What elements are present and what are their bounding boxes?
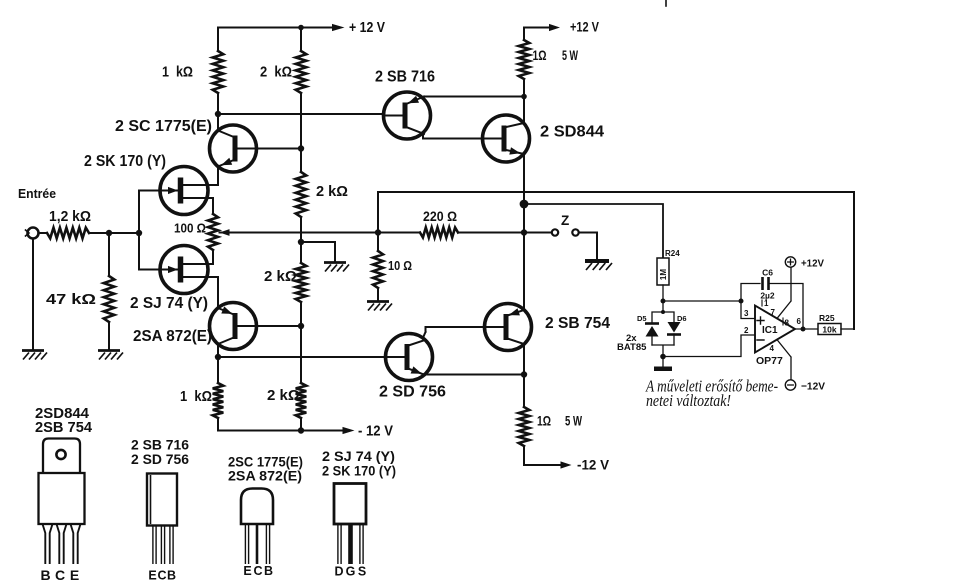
svg-text:R25: R25 bbox=[819, 313, 835, 323]
resistor R25 10k bbox=[818, 324, 841, 335]
svg-text:5 W: 5 W bbox=[562, 48, 578, 63]
svg-text:+12V: +12V bbox=[801, 258, 824, 270]
power -12V arrow right bbox=[561, 461, 572, 468]
diode D6 bbox=[668, 322, 681, 333]
wire 2SB716 emitter to column bbox=[424, 96, 524, 98]
node output to R24 (large) bbox=[520, 200, 529, 209]
wire node to op-amp + input column bbox=[663, 300, 741, 302]
capacitor C6 2u2 bbox=[741, 284, 760, 302]
wire 2SD756 emitter line bbox=[424, 374, 524, 376]
wire 2SC1775 base to column bbox=[256, 148, 301, 150]
svg-text:D5: D5 bbox=[637, 314, 647, 323]
svg-text:220 Ω: 220 Ω bbox=[423, 209, 457, 224]
wire top +12V rail left bbox=[218, 27, 332, 29]
resistor 47 kOhm bbox=[108, 233, 110, 276]
wire pin4 to -12V supply bbox=[777, 340, 791, 380]
wire 2SA872 base to column bbox=[256, 325, 301, 327]
svg-text:1,2 kΩ: 1,2 kΩ bbox=[49, 209, 91, 225]
resistor 2 kOhm first (top middle column) bbox=[300, 28, 302, 52]
svg-text:netei változtak!: netei változtak! bbox=[646, 391, 731, 410]
resistor 220 Ohm bbox=[420, 228, 458, 238]
node 2SD756 emitter junction bbox=[521, 371, 527, 377]
svg-text:2 SD 756: 2 SD 756 bbox=[131, 451, 189, 467]
transistor Q 2SB716 bbox=[384, 92, 431, 139]
wire 2SD756 base bbox=[218, 356, 386, 358]
wire bottom -12V rail left bbox=[218, 430, 346, 432]
wire node to R24 bbox=[524, 204, 663, 258]
svg-text:1Ω: 1Ω bbox=[533, 48, 547, 63]
resistor 2 kOhm third bbox=[296, 263, 307, 302]
resistor 1,2 kOhm input bbox=[47, 228, 89, 239]
svg-text:10k: 10k bbox=[822, 325, 836, 335]
node junction top rail / 2k column bbox=[298, 25, 304, 31]
node 2SB716 emitter junction bbox=[521, 94, 527, 100]
svg-text:+12 V: +12 V bbox=[570, 19, 600, 35]
svg-text:2SA 872(E): 2SA 872(E) bbox=[228, 469, 302, 484]
op-amp IC1 triangle bbox=[755, 306, 795, 353]
svg-text:2 SC 1775(E): 2 SC 1775(E) bbox=[115, 118, 212, 135]
svg-text:2 SB 754: 2 SB 754 bbox=[545, 315, 610, 332]
svg-text:2 kΩ: 2 kΩ bbox=[316, 184, 348, 200]
transistor Q 2SC1775 bbox=[210, 125, 257, 172]
wire switch to ground bbox=[579, 233, 597, 261]
svg-text:C6: C6 bbox=[762, 268, 773, 278]
wire input line bbox=[39, 232, 139, 234]
power +12V arrow right bbox=[549, 24, 560, 31]
wire node to 2SB716 base bbox=[218, 113, 385, 115]
wire pin7 to +12V supply bbox=[777, 267, 791, 318]
node emitter junction left column bbox=[215, 354, 221, 360]
power +12V arrow left bbox=[332, 24, 345, 31]
power -12V arrow left bbox=[343, 427, 355, 434]
ground under 47k bbox=[98, 349, 120, 352]
svg-text:8: 8 bbox=[785, 319, 790, 328]
svg-text:E: E bbox=[243, 564, 251, 578]
svg-text:D6: D6 bbox=[677, 314, 687, 323]
svg-text:BAT85: BAT85 bbox=[617, 342, 647, 353]
wire R25 to feedback column bbox=[841, 328, 854, 330]
resistor 1 kOhm upper bbox=[217, 28, 219, 52]
svg-text:2 SK 170 (Y): 2 SK 170 (Y) bbox=[84, 153, 166, 170]
node input / gate column junction bbox=[136, 230, 142, 236]
wire diode bracket top bbox=[652, 301, 674, 323]
svg-text:6: 6 bbox=[797, 317, 802, 326]
op-amp plus minus marks bbox=[757, 317, 764, 340]
wire jack to ground bbox=[32, 239, 34, 350]
transistor Q 2SA872 bbox=[210, 303, 257, 350]
transistor Q 2SD844 bbox=[483, 115, 530, 162]
wire 2SJ74 drain to 2SA872 emitter bbox=[184, 277, 218, 357]
wire op-amp + input bbox=[741, 301, 755, 319]
ground at switch bbox=[585, 259, 609, 263]
resistor 1 kOhm lower bbox=[217, 357, 219, 383]
supply +12V circle bbox=[785, 257, 795, 267]
svg-text:+ 12 V: + 12 V bbox=[349, 20, 385, 36]
svg-text:R24: R24 bbox=[665, 249, 680, 258]
connector input jack bbox=[28, 228, 39, 239]
wire 2SK170 source to 100R bbox=[184, 198, 213, 214]
svg-text:Z: Z bbox=[561, 213, 569, 228]
svg-text:C: C bbox=[157, 569, 166, 583]
ground middle stub bbox=[324, 261, 346, 264]
wire +12V right rail bbox=[524, 27, 551, 29]
node 2SA872 base junction bbox=[298, 323, 304, 329]
wire feedback from R25 bbox=[378, 192, 854, 329]
wire diode bracket bottom bbox=[652, 345, 674, 366]
trimmer wiper arrow and wire bbox=[220, 229, 230, 236]
svg-text:2 SD 756: 2 SD 756 bbox=[379, 384, 446, 401]
svg-text:2: 2 bbox=[744, 326, 749, 335]
wire 2SB716 collector to 2SD844 base bbox=[423, 134, 485, 139]
svg-text:1Ω: 1Ω bbox=[537, 414, 551, 429]
transistor Q 2SK170 JFET bbox=[160, 167, 208, 215]
ground under 10R bbox=[367, 300, 389, 303]
diode D5 bbox=[645, 322, 659, 325]
wire 2SD756 collector to 2SB754 base bbox=[422, 327, 486, 340]
svg-text:-12 V: -12 V bbox=[577, 457, 610, 473]
svg-text:2 SJ 74 (Y): 2 SJ 74 (Y) bbox=[322, 449, 395, 464]
wire gate column bbox=[138, 191, 140, 270]
resistor 2 kOhm fourth bbox=[296, 383, 307, 418]
wire ground stub bbox=[301, 242, 335, 262]
svg-text:2 kΩ: 2 kΩ bbox=[260, 65, 292, 81]
svg-text:−12V: −12V bbox=[801, 381, 825, 393]
svg-text:2 SJ 74 (Y): 2 SJ 74 (Y) bbox=[130, 295, 208, 312]
svg-text:2SB 754: 2SB 754 bbox=[35, 420, 92, 436]
wire to op-amp - input bbox=[663, 335, 755, 357]
wire 2SJ74 source to 100R bbox=[184, 250, 213, 264]
svg-text:B: B bbox=[167, 569, 176, 583]
svg-text:4: 4 bbox=[770, 344, 775, 353]
svg-text:G: G bbox=[346, 565, 356, 579]
transistor Q 2SD756 bbox=[386, 334, 433, 381]
svg-text:1M: 1M bbox=[659, 269, 668, 280]
wire output column bbox=[523, 79, 525, 407]
resistor 1 Ohm 5W lower bbox=[519, 407, 530, 446]
svg-text:3: 3 bbox=[744, 309, 749, 318]
node R24 bottom bbox=[661, 299, 666, 304]
svg-text:IC1: IC1 bbox=[762, 325, 778, 336]
resistor 10 Ohm bbox=[377, 233, 379, 252]
svg-text:100 Ω: 100 Ω bbox=[174, 221, 206, 236]
svg-text:1 kΩ: 1 kΩ bbox=[162, 65, 193, 81]
wire to switch bbox=[458, 232, 552, 234]
svg-text:5 W: 5 W bbox=[565, 414, 582, 429]
node input / 47k junction bbox=[106, 230, 112, 236]
wire 2SK170 drain to 2SC1775 emitter bbox=[184, 166, 218, 185]
svg-text:S: S bbox=[358, 565, 366, 579]
svg-text:B: B bbox=[264, 564, 273, 578]
wire top tick mark bbox=[665, 0, 667, 6]
supply -12V circle bbox=[785, 380, 795, 390]
node output column crossing bbox=[521, 229, 527, 235]
svg-text:B: B bbox=[40, 567, 50, 583]
node diode bottom bbox=[660, 354, 666, 360]
svg-text:Entrée: Entrée bbox=[18, 186, 56, 201]
wire 2SC1775 chord column bbox=[217, 114, 219, 185]
transistor Q 2SB754 bbox=[485, 304, 532, 351]
node bottom rail / 2k column bbox=[298, 427, 304, 433]
ground under input jack bbox=[22, 349, 44, 352]
resistor 1 Ohm 5W upper bbox=[523, 28, 525, 41]
svg-text:1 kΩ: 1 kΩ bbox=[180, 389, 212, 405]
svg-text:2 SK 170 (Y): 2 SK 170 (Y) bbox=[322, 464, 396, 479]
svg-text:E: E bbox=[70, 567, 79, 583]
svg-text:2 kΩ: 2 kΩ bbox=[267, 388, 300, 404]
svg-text:1: 1 bbox=[764, 299, 769, 308]
svg-text:2SA 872(E): 2SA 872(E) bbox=[133, 328, 212, 345]
resistor 100 Ohm trimmer bbox=[208, 214, 218, 250]
svg-text:2 SB 716: 2 SB 716 bbox=[375, 69, 435, 86]
ground IEC below diodes bbox=[654, 367, 672, 372]
svg-text:- 12 V: - 12 V bbox=[358, 424, 393, 440]
transistor Q 2SJ74 JFET bbox=[160, 246, 208, 294]
svg-text:D: D bbox=[334, 565, 343, 579]
node 10R junction bbox=[375, 229, 381, 235]
svg-text:2 kΩ: 2 kΩ bbox=[264, 269, 297, 285]
svg-text:2SC 1775(E): 2SC 1775(E) bbox=[228, 455, 303, 470]
svg-text:2 SD844: 2 SD844 bbox=[540, 124, 604, 141]
svg-text:C: C bbox=[55, 567, 65, 583]
switch Z pole left bbox=[552, 229, 558, 235]
svg-text:10 Ω: 10 Ω bbox=[388, 258, 412, 273]
wire output bbox=[795, 328, 818, 330]
resistor 2 kOhm second (middle column) bbox=[296, 172, 307, 217]
node 1k bottom / 2SC1775 collector / 2SB716 base bbox=[215, 111, 221, 117]
svg-text:7: 7 bbox=[771, 308, 776, 317]
svg-text:47 kΩ: 47 kΩ bbox=[46, 292, 96, 308]
svg-text:E: E bbox=[148, 569, 156, 583]
svg-text:C: C bbox=[253, 564, 262, 578]
node 2SC1775 base junction bbox=[298, 145, 304, 151]
resistor R24 1M bbox=[657, 258, 669, 285]
node middle column ground stub junction bbox=[298, 239, 304, 245]
wire to -12V right bbox=[524, 446, 562, 465]
wire R24 to node bbox=[662, 285, 664, 301]
svg-text:OP77: OP77 bbox=[756, 355, 783, 367]
switch Z pole right bbox=[572, 229, 578, 235]
